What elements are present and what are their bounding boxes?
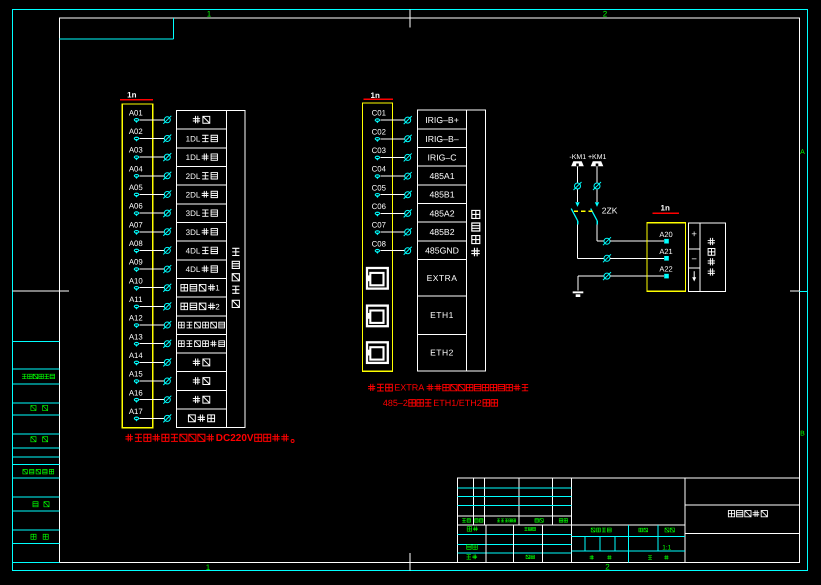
- terminal circle on A21 wire: [603, 254, 611, 262]
- svg-text:1DL: 1DL: [186, 134, 201, 143]
- svg-text:IRIG–B+: IRIG–B+: [425, 115, 459, 125]
- DI signal table frame: [177, 111, 246, 428]
- terminal circle A16: [163, 396, 171, 404]
- svg-text:A16: A16: [129, 388, 143, 397]
- supply tap +KM1: [591, 161, 604, 166]
- svg-text:A06: A06: [129, 202, 143, 211]
- svg-text:ETH1/ETH2: ETH1/ETH2: [433, 398, 482, 408]
- svg-text:ETH2: ETH2: [430, 348, 454, 358]
- wire to A21: [578, 257, 604, 259]
- svg-text:485A2: 485A2: [429, 208, 454, 218]
- wire C05: [380, 194, 404, 196]
- svg-text:C06: C06: [372, 202, 386, 211]
- svg-text:1: 1: [215, 284, 220, 293]
- svg-text:C02: C02: [372, 127, 386, 136]
- terminal circle C01: [404, 116, 412, 124]
- note under DI block: [125, 434, 213, 441]
- signature labels: [467, 526, 478, 531]
- wire A14: [139, 361, 164, 363]
- wire A15: [139, 380, 164, 382]
- wire C07: [380, 231, 404, 233]
- wire +KM1 to switch lower: [596, 189, 598, 202]
- svg-text:1n: 1n: [661, 204, 670, 213]
- terminal circle C08: [404, 247, 412, 255]
- wire -KM1 to switch: [577, 166, 579, 182]
- ground: [573, 291, 584, 297]
- wire A21 segment: [610, 257, 664, 259]
- wire A08: [139, 249, 164, 251]
- svg-text:A20: A20: [659, 230, 672, 239]
- svg-text:IRIG–C: IRIG–C: [428, 152, 457, 162]
- svg-text:C05: C05: [372, 183, 387, 192]
- wire A17: [139, 417, 164, 419]
- terminal circle A13: [163, 340, 171, 348]
- svg-text:C01: C01: [372, 109, 386, 118]
- DI signal table row labels: [193, 116, 210, 123]
- wire A13: [139, 343, 164, 345]
- wire C01: [380, 119, 404, 121]
- svg-text:2DL: 2DL: [186, 190, 201, 199]
- wire switch pole1 down: [577, 225, 579, 259]
- supply tap -KM1: [571, 161, 584, 166]
- ethernet port ETH1 symbol: [367, 306, 388, 327]
- terminal circle A05: [163, 190, 171, 198]
- drawing title 接线原理图: [685, 504, 799, 506]
- wire A12: [139, 324, 164, 326]
- terminal circle C05: [404, 191, 412, 199]
- svg-text:DC220V: DC220V: [216, 433, 254, 444]
- wire switch pole2 down: [596, 225, 598, 242]
- terminal circle C02: [404, 135, 412, 143]
- svg-text:4DL: 4DL: [186, 265, 201, 274]
- svg-text:B: B: [800, 430, 805, 437]
- terminal circle on +KM1 wire: [593, 182, 601, 190]
- wire A05: [139, 193, 164, 195]
- comms table frame: [418, 110, 486, 371]
- wire C03: [380, 156, 404, 158]
- svg-text:ETH1: ETH1: [430, 310, 454, 320]
- svg-text:+KM1: +KM1: [588, 154, 607, 161]
- svg-text:485A1: 485A1: [429, 171, 454, 181]
- frame zone ticks and labels: [409, 10, 411, 28]
- frame corner box: [60, 38, 174, 40]
- svg-text:A15: A15: [129, 370, 144, 379]
- terminal circle on A20 wire: [603, 237, 611, 245]
- svg-text:1n: 1n: [371, 91, 380, 100]
- terminal circle A03: [163, 153, 171, 161]
- svg-text:A04: A04: [129, 164, 144, 173]
- terminal circle A07: [163, 228, 171, 236]
- svg-text:A17: A17: [129, 407, 143, 416]
- stamp area lines: [572, 535, 685, 537]
- svg-text:EXTRA: EXTRA: [394, 383, 424, 393]
- wire +KM1 to switch: [596, 166, 598, 182]
- svg-text:485B2: 485B2: [429, 227, 454, 237]
- terminal circle A14: [163, 358, 171, 366]
- revision header labels: [462, 519, 470, 523]
- switch 2ZK pole 1 blade: [571, 209, 578, 221]
- svg-text:A22: A22: [659, 265, 672, 274]
- svg-text:1: 1: [206, 563, 211, 572]
- svg-text:1n: 1n: [127, 91, 136, 100]
- wire A22 to ground: [578, 275, 604, 277]
- terminal circle C03: [404, 153, 412, 161]
- wire A07: [139, 231, 164, 233]
- terminal circle A17: [163, 414, 171, 422]
- switch 2ZK pole 2 blade: [591, 209, 598, 221]
- stamp area labels: [591, 528, 611, 532]
- wire A04: [139, 175, 164, 177]
- svg-text:A05: A05: [129, 183, 144, 192]
- svg-text:A10: A10: [129, 276, 144, 285]
- svg-text:C07: C07: [372, 221, 386, 230]
- terminal circle A06: [163, 209, 171, 217]
- terminal circle on -KM1 wire: [574, 182, 582, 190]
- terminal circle A15: [163, 377, 171, 385]
- svg-text:3DL: 3DL: [186, 228, 201, 237]
- svg-text:EXTRA: EXTRA: [427, 273, 458, 283]
- terminal circle C04: [404, 172, 412, 180]
- wire A02: [139, 137, 164, 139]
- wire A20 segment: [610, 240, 664, 242]
- left margin strip lines: [13, 341, 60, 343]
- terminal circle A09: [163, 265, 171, 273]
- svg-text:C03: C03: [372, 146, 386, 155]
- DI table column label 开关量输入: [232, 248, 239, 307]
- svg-text:2: 2: [603, 10, 608, 19]
- ethernet port ETH2 symbol: [367, 342, 388, 363]
- svg-text:A08: A08: [129, 239, 143, 248]
- wire A03: [139, 156, 164, 158]
- wire C04: [380, 175, 404, 177]
- wire A01: [139, 119, 164, 121]
- title block frame: [458, 478, 800, 563]
- terminal circle C07: [404, 228, 412, 236]
- wire A22 segment: [610, 275, 664, 277]
- svg-text:485GND: 485GND: [425, 246, 459, 256]
- svg-text:C04: C04: [372, 165, 387, 174]
- terminal circle A04: [163, 172, 171, 180]
- terminal strip 1n (C) body: [363, 103, 393, 371]
- note under comms block line1: [368, 384, 392, 391]
- wire A06: [139, 212, 164, 214]
- terminal circle C06: [404, 209, 412, 217]
- svg-text:A13: A13: [129, 332, 143, 341]
- svg-text:A07: A07: [129, 220, 143, 229]
- terminal circle A11: [163, 302, 171, 310]
- switch 2ZK linkage: [574, 210, 593, 212]
- signature area lines: [458, 534, 572, 536]
- svg-text:2: 2: [215, 302, 220, 311]
- wire A16: [139, 399, 164, 401]
- wire C08: [380, 250, 404, 252]
- svg-text:A: A: [800, 149, 805, 156]
- svg-text:A21: A21: [659, 247, 672, 256]
- terminal circle A08: [163, 246, 171, 254]
- svg-text:-KM1: -KM1: [569, 154, 586, 161]
- svg-text:+: +: [691, 229, 697, 240]
- terminal circle A01: [163, 116, 171, 124]
- wire A10: [139, 287, 164, 289]
- left margin labels: [22, 374, 54, 378]
- wire C02: [380, 138, 404, 140]
- svg-text:A09: A09: [129, 258, 143, 267]
- terminal strip 1n (A) body: [122, 104, 153, 428]
- svg-text:A02: A02: [129, 127, 143, 136]
- svg-text:1DL: 1DL: [186, 153, 201, 162]
- svg-text:C08: C08: [372, 239, 386, 248]
- svg-text:A11: A11: [129, 295, 142, 304]
- comms table column label 通讯接口: [471, 210, 480, 256]
- terminal circle A10: [163, 284, 171, 292]
- svg-text:A12: A12: [129, 314, 143, 323]
- wire C06: [380, 212, 404, 214]
- ethernet port EXTRA symbol: [367, 268, 388, 289]
- terminal circle A02: [163, 134, 171, 142]
- svg-text:1: 1: [207, 10, 212, 19]
- wire A09: [139, 268, 164, 270]
- svg-text:IRIG–B–: IRIG–B–: [425, 134, 458, 144]
- power table column label 装置电源: [708, 238, 715, 276]
- svg-text:1:1: 1:1: [662, 545, 671, 552]
- svg-text:3DL: 3DL: [186, 209, 201, 218]
- svg-text:485B1: 485B1: [429, 190, 454, 200]
- svg-text:−: −: [691, 254, 697, 265]
- svg-text:485–2: 485–2: [383, 398, 408, 408]
- wire to A20: [597, 240, 604, 242]
- power table frame: [688, 223, 725, 291]
- terminal circle A12: [163, 321, 171, 329]
- svg-text:2ZK: 2ZK: [602, 206, 618, 216]
- power terminal strip 1n body: [647, 223, 685, 291]
- svg-text:2: 2: [605, 563, 610, 572]
- svg-text:4DL: 4DL: [186, 246, 201, 255]
- wire A11: [139, 305, 164, 307]
- wire -KM1 to switch lower: [577, 189, 579, 202]
- svg-text:A03: A03: [129, 146, 143, 155]
- svg-text:A01: A01: [129, 108, 143, 117]
- svg-text:A14: A14: [129, 351, 144, 360]
- svg-text:2DL: 2DL: [186, 172, 201, 181]
- terminal circle on A22 wire: [603, 272, 611, 280]
